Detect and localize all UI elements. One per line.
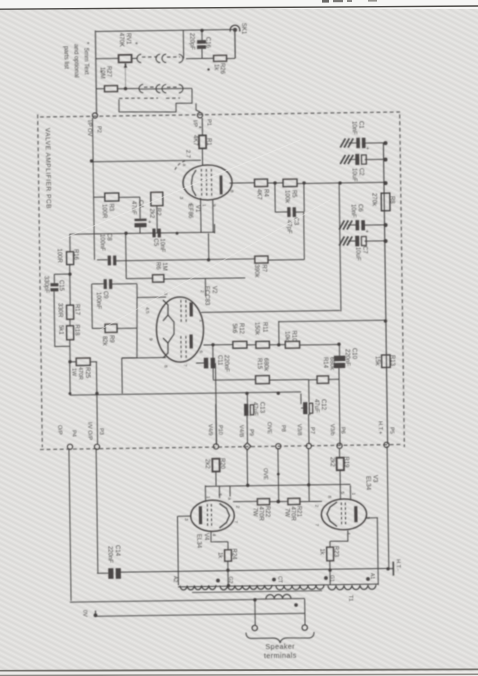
svg-text:2k2: 2k2 [148, 208, 154, 218]
svg-text:R6: R6 [155, 262, 161, 270]
svg-text:1M: 1M [161, 262, 167, 270]
svg-text:470R: 470R [77, 367, 83, 380]
svg-text:150k: 150k [253, 322, 259, 336]
svg-text:5mm Text: 5mm Text [83, 48, 90, 75]
svg-text:R23: R23 [333, 546, 339, 558]
svg-text:RV1: RV1 [125, 33, 131, 45]
svg-text:CT: CT [277, 576, 283, 584]
svg-text:I/V O/P: I/V O/P [86, 422, 92, 440]
svg-text:terminals: terminals [264, 651, 297, 660]
svg-text:V3: V3 [372, 475, 378, 483]
svg-text:H.T.-: H.T.- [395, 559, 401, 571]
svg-text:O/P: O/P [56, 425, 62, 435]
svg-text:9: 9 [147, 338, 153, 341]
svg-text:4,5: 4,5 [144, 307, 150, 314]
svg-text:P10: P10 [217, 425, 223, 435]
svg-text:8: 8 [326, 495, 332, 498]
svg-text:R8: R8 [389, 196, 395, 204]
svg-text:R5: R5 [291, 190, 297, 198]
svg-text:C13: C13 [258, 402, 264, 414]
svg-text:R25: R25 [84, 367, 90, 379]
svg-text:P3: P3 [98, 428, 104, 435]
svg-text:R3: R3 [108, 203, 114, 211]
svg-text:680k: 680k [262, 358, 268, 372]
svg-text:G1: G1 [329, 575, 335, 582]
svg-text:220pF: 220pF [188, 33, 194, 50]
svg-text:A2: A2 [172, 576, 178, 583]
svg-text:3: 3 [178, 196, 184, 199]
svg-text:C5: C5 [152, 238, 158, 246]
svg-text:R7: R7 [260, 264, 266, 272]
svg-text:5k6: 5k6 [231, 323, 237, 333]
svg-text:100nF: 100nF [99, 234, 105, 251]
svg-text:8: 8 [162, 365, 168, 368]
svg-text:R16: R16 [72, 249, 78, 261]
svg-text:3: 3 [183, 518, 189, 521]
svg-text:R4: R4 [263, 189, 269, 197]
svg-text:C2: C2 [358, 168, 364, 176]
svg-text:V4: V4 [203, 533, 209, 541]
svg-text:OVE: OVE [262, 468, 268, 480]
svg-text:P6: P6 [339, 427, 345, 434]
svg-text:G2: G2 [227, 577, 233, 584]
svg-text:C7: C7 [361, 246, 367, 254]
svg-text:10nF: 10nF [159, 238, 165, 252]
svg-text:4K7: 4K7 [191, 135, 197, 146]
svg-text:+: + [365, 229, 368, 235]
svg-text:1k: 1k [212, 64, 218, 71]
svg-text:*: * [131, 42, 138, 45]
svg-text:100nF: 100nF [95, 292, 101, 309]
svg-text:V3/8: V3/8 [296, 424, 302, 436]
svg-text:ECC83: ECC83 [203, 286, 209, 306]
svg-text:C15: C15 [57, 280, 63, 292]
svg-text:T1: T1 [347, 595, 353, 602]
svg-text:2.7: 2.7 [184, 150, 190, 158]
svg-text:C16: C16 [204, 37, 210, 49]
svg-text:R17: R17 [74, 304, 80, 316]
svg-text:8: 8 [229, 190, 235, 193]
svg-text:1: 1 [198, 319, 204, 322]
svg-text:1: 1 [205, 496, 211, 499]
svg-text:*: * [96, 70, 103, 73]
svg-text:R11: R11 [261, 322, 267, 333]
svg-text:7W: 7W [283, 508, 289, 517]
svg-text:R15: R15 [256, 358, 262, 370]
svg-text:7: 7 [313, 523, 319, 526]
svg-text:10nF: 10nF [350, 204, 356, 218]
svg-text:P1: P1 [206, 119, 212, 126]
svg-text:P9: P9 [248, 429, 254, 436]
svg-text:V4/B: V4/B [238, 425, 244, 437]
svg-text:100R: 100R [101, 204, 107, 219]
svg-text:1k: 1k [319, 548, 325, 555]
svg-text:220nF: 220nF [223, 355, 229, 372]
svg-text:220nF: 220nF [106, 546, 112, 563]
svg-text:parts list: parts list [63, 46, 70, 69]
svg-text:7W: 7W [251, 507, 257, 516]
svg-text:V2: V2 [211, 286, 217, 294]
svg-text:C6: C6 [357, 204, 363, 212]
svg-text:4K7: 4K7 [256, 189, 262, 200]
svg-text:2k2: 2k2 [203, 459, 209, 469]
svg-text:10M: 10M [99, 67, 105, 79]
svg-text:47uF: 47uF [251, 402, 257, 416]
svg-text:R19: R19 [342, 456, 348, 468]
svg-text:330R: 330R [56, 303, 62, 318]
svg-text:EL34: EL34 [195, 534, 201, 549]
svg-text:6: 6 [197, 350, 203, 353]
svg-text:C9: C9 [102, 291, 108, 299]
svg-text:R14: R14 [322, 357, 328, 369]
svg-text:*: * [195, 126, 202, 129]
svg-text:R13: R13 [389, 355, 395, 367]
svg-text:100R: 100R [56, 248, 62, 263]
svg-text:2k2: 2k2 [328, 457, 334, 467]
svg-text:P5: P5 [388, 427, 394, 434]
svg-text:H.T.+: H.T.+ [376, 421, 382, 434]
svg-text:100k: 100k [284, 190, 290, 204]
svg-text:1: 1 [201, 204, 207, 207]
svg-text:270k: 270k [370, 193, 376, 207]
svg-text:C11: C11 [216, 355, 222, 366]
svg-text:Speaker: Speaker [265, 642, 295, 651]
svg-text:a: a [181, 163, 186, 166]
svg-text:P2: P2 [96, 126, 102, 133]
svg-text:2: 2 [235, 505, 241, 508]
svg-text:C14: C14 [114, 545, 120, 557]
svg-text:330pF: 330pF [43, 276, 49, 293]
svg-text:P8: P8 [280, 425, 286, 432]
svg-text:470K: 470K [118, 33, 124, 47]
svg-text:220nF: 220nF [344, 349, 350, 366]
svg-text:R2: R2 [154, 208, 160, 216]
svg-text:82k: 82k [101, 336, 107, 347]
svg-text:C12: C12 [320, 399, 326, 411]
svg-text:P7: P7 [309, 427, 315, 434]
svg-text:SK1: SK1 [240, 23, 246, 35]
svg-text:1W: 1W [71, 368, 77, 377]
svg-text:5: 5 [216, 493, 222, 496]
svg-text:R9: R9 [108, 335, 114, 343]
svg-text:+: + [148, 220, 151, 226]
svg-text:V3/b: V3/b [329, 424, 335, 436]
svg-text:+: + [366, 146, 369, 152]
svg-text:9: 9 [211, 204, 217, 207]
svg-text:R12: R12 [238, 323, 244, 335]
svg-text:a: a [226, 497, 231, 500]
svg-text:5k1: 5k1 [58, 325, 64, 335]
svg-text:OVE: OVE [265, 422, 271, 434]
svg-text:10uF: 10uF [354, 247, 360, 261]
svg-text:7: 7 [232, 520, 238, 523]
svg-text:EF86: EF86 [187, 204, 193, 219]
svg-text:5: 5 [339, 491, 345, 494]
svg-text:2: 2 [314, 504, 320, 507]
svg-text:47uF: 47uF [313, 399, 319, 413]
svg-text:1k: 1k [216, 552, 222, 559]
svg-text:C10: C10 [351, 348, 357, 360]
svg-text:15k: 15k [374, 356, 380, 367]
svg-text:V4/9: V4/9 [206, 424, 212, 436]
svg-text:EL34: EL34 [365, 476, 371, 491]
svg-text:R24: R24 [231, 548, 237, 560]
svg-text:1: 1 [350, 492, 356, 495]
svg-text:A1: A1 [369, 573, 375, 580]
svg-text:10uF: 10uF [351, 168, 357, 182]
svg-text:P4: P4 [70, 430, 76, 437]
svg-text:I/P OV: I/P OV [86, 120, 92, 137]
svg-text:and optional: and optional [72, 44, 79, 78]
svg-text:R10: R10 [291, 330, 297, 342]
svg-text:V1: V1 [194, 205, 200, 213]
svg-text:R22: R22 [264, 506, 270, 518]
svg-text:R1: R1 [205, 138, 211, 146]
svg-text:R18: R18 [73, 324, 79, 336]
svg-text:390k: 390k [253, 264, 259, 278]
svg-text:C1: C1 [357, 121, 363, 129]
svg-text:7: 7 [182, 364, 188, 367]
svg-text:10nF: 10nF [350, 121, 356, 135]
svg-text:0V: 0V [81, 610, 87, 617]
svg-text:VALVE AMPLIFIER PCB: VALVE AMPLIFIER PCB [43, 128, 51, 209]
svg-text:680k: 680k [328, 357, 334, 371]
svg-text:R20: R20 [218, 458, 224, 470]
svg-text:10k: 10k [284, 331, 290, 342]
svg-text:47uF: 47uF [130, 201, 136, 215]
